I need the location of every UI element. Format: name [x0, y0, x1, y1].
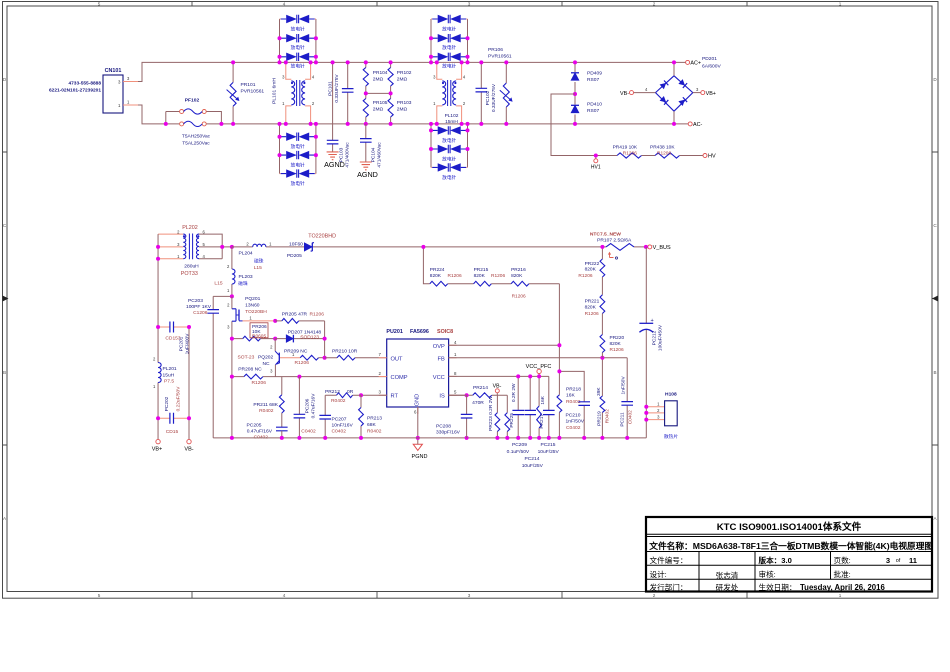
resistor PR215 labels — [474, 267, 506, 279]
wire FB row — [449, 357, 628, 359]
svg-text:3: 3 — [468, 2, 471, 7]
common-mode choke PL101 — [282, 62, 315, 124]
svg-text:PR212: PR212 — [325, 389, 340, 395]
svg-text:3: 3 — [468, 593, 471, 598]
svg-text:R1206: R1206 — [491, 273, 505, 279]
wire OVP column — [558, 284, 560, 395]
svg-text:820K: 820K — [585, 267, 597, 273]
discharge diode block lower PL101 — [280, 124, 316, 178]
svg-text:TO220BHD: TO220BHD — [308, 234, 336, 240]
transformer PL202 labels — [181, 225, 199, 277]
svg-text:C1206: C1206 — [193, 310, 208, 316]
svg-text:13N60: 13N60 — [245, 302, 260, 308]
discharge diode block lower PL102 — [431, 124, 468, 172]
svg-text:PC104: PC104 — [370, 147, 376, 162]
capacitor PC208 labels — [436, 423, 461, 435]
svg-text:PR215: PR215 — [474, 267, 489, 273]
svg-text:0.22uF/50V: 0.22uF/50V — [176, 386, 182, 412]
capacitor PC211 labels — [619, 376, 633, 427]
resistors PR104 PR105 — [363, 62, 368, 124]
inductor PL201 — [153, 356, 161, 389]
svg-text:PR209 NC: PR209 NC — [284, 348, 308, 354]
resistor PR214 — [449, 393, 508, 398]
wire L line top — [138, 62, 686, 81]
svg-text:PR438 10K: PR438 10K — [650, 144, 675, 150]
svg-text:R1206: R1206 — [610, 347, 624, 353]
svg-text:张志清: 张志清 — [716, 570, 739, 580]
ground AGND for PC104 — [357, 162, 378, 179]
resistor PR223 — [495, 395, 500, 438]
wire PFC row — [232, 246, 648, 248]
terminal VB- sense — [493, 383, 502, 395]
svg-text:PR219: PR219 — [597, 411, 603, 426]
svg-text:PC211: PC211 — [619, 412, 625, 427]
capacitor PC205 labels — [247, 423, 273, 441]
svg-text:OVP: OVP — [433, 344, 445, 350]
svg-text:820K: 820K — [610, 341, 622, 347]
svg-text:2MΩ: 2MΩ — [373, 77, 384, 83]
svg-text:PR214: PR214 — [473, 385, 488, 391]
terminal VB- — [184, 439, 193, 452]
svg-text:330pF/16V: 330pF/16V — [436, 430, 461, 436]
wire middle tie PR104-PR102 — [366, 92, 391, 94]
svg-text:2: 2 — [653, 2, 656, 7]
terminal VB- bridge — [620, 87, 656, 97]
connector H108 — [646, 401, 677, 426]
svg-text:PR107 2.5Ω/6A: PR107 2.5Ω/6A — [597, 238, 632, 244]
resistor PR206 — [232, 336, 275, 341]
svg-text:PC206: PC206 — [305, 398, 311, 413]
svg-text:PR104: PR104 — [373, 70, 388, 76]
resistor PR212 — [325, 393, 361, 398]
capacitor PC212 labels — [652, 324, 664, 351]
resistor PR205 — [275, 319, 324, 324]
svg-text:R1206: R1206 — [295, 360, 310, 366]
svg-text:2MΩ: 2MΩ — [397, 107, 408, 113]
capacitor PC210 — [559, 371, 590, 438]
svg-text:VCC: VCC — [433, 375, 445, 381]
svg-text:PR208 NC: PR208 NC — [238, 367, 262, 373]
svg-text:放电针: 放电针 — [442, 137, 456, 144]
svg-text:放电针: 放电针 — [442, 155, 456, 162]
zone letters left — [3, 77, 7, 521]
svg-text:PR105: PR105 — [373, 100, 388, 106]
svg-text:审核:: 审核: — [759, 569, 776, 579]
capacitor PC209 — [512, 376, 524, 438]
svg-text:10F60: 10F60 — [289, 242, 303, 248]
capacitor PC210 labels — [566, 413, 585, 431]
wire GND pin — [417, 407, 419, 438]
svg-text:L15: L15 — [254, 265, 262, 271]
op-amp U1 PFC controller PU201 FA5696 — [387, 339, 449, 407]
svg-text:0.47uF/16V: 0.47uF/16V — [311, 393, 317, 419]
wire PR205 corner — [324, 321, 326, 358]
capacitor PC207 labels — [332, 416, 354, 434]
svg-text:11: 11 — [909, 556, 918, 565]
svg-text:PD201: PD201 — [702, 56, 717, 62]
capacitor PC211 — [621, 358, 633, 438]
resistor PR222 labels — [578, 261, 599, 279]
svg-text:版本：3.0: 版本：3.0 — [758, 555, 792, 565]
svg-text:PC207: PC207 — [332, 416, 347, 422]
zone numbers top — [98, 2, 842, 7]
svg-text:PL203: PL203 — [239, 274, 253, 280]
svg-text:放电针: 放电针 — [291, 63, 305, 70]
resistor PR438 labels — [650, 144, 675, 156]
svg-text:C0402: C0402 — [301, 428, 316, 434]
svg-text:of: of — [896, 558, 901, 564]
discharge needle labels lower PL101 — [291, 143, 305, 187]
svg-text:PR216: PR216 — [511, 267, 526, 273]
inductor PL204 labels — [239, 250, 264, 270]
junction PR101 nodes — [231, 60, 235, 126]
svg-text:PC102: PC102 — [485, 90, 491, 105]
svg-text:0R: 0R — [347, 389, 354, 395]
svg-text:KTC ISO9001.ISO14001体系文件: KTC ISO9001.ISO14001体系文件 — [717, 521, 862, 533]
svg-text:0.33UF/275V: 0.33UF/275V — [334, 74, 340, 103]
svg-text:PR210 10R: PR210 10R — [332, 348, 358, 354]
capacitor PC214 labels — [522, 456, 544, 469]
svg-text:280uH: 280uH — [184, 263, 199, 269]
svg-text:磁珠: 磁珠 — [238, 280, 248, 287]
svg-text:3: 3 — [886, 556, 890, 565]
svg-text:PC203: PC203 — [188, 298, 203, 304]
fuse PF102 value labels — [182, 133, 211, 146]
varistor PR106 — [500, 62, 513, 124]
wire ground rail — [213, 437, 646, 439]
svg-text:PC214: PC214 — [525, 456, 540, 462]
resistor PR213 — [359, 395, 364, 438]
svg-text:TO220BH: TO220BH — [245, 309, 267, 315]
svg-text:VB-: VB- — [184, 447, 193, 453]
capacitor PC205 — [276, 427, 288, 438]
connector CN101 — [103, 68, 138, 113]
svg-text:磁珠: 磁珠 — [254, 257, 264, 264]
capacitor PC201 labels — [165, 333, 190, 355]
svg-text:16K: 16K — [566, 393, 575, 399]
svg-text:SOT-23: SOT-23 — [238, 355, 255, 361]
capacitor PC101 labels — [328, 74, 340, 103]
svg-text:0.1uF/50V: 0.1uF/50V — [507, 449, 530, 455]
svg-text:2MΩ: 2MΩ — [373, 107, 384, 113]
svg-text:2MΩ: 2MΩ — [397, 77, 408, 83]
svg-text:PQ202: PQ202 — [258, 355, 274, 361]
capacitor PC208 — [449, 395, 473, 438]
svg-text:R1206: R1206 — [578, 273, 592, 279]
svg-text:CD15: CD15 — [166, 429, 179, 435]
svg-text:PR222: PR222 — [585, 261, 600, 267]
svg-text:PC201: PC201 — [179, 336, 185, 351]
discharge needle labels upper PL101 — [291, 26, 305, 70]
svg-text:PF102: PF102 — [185, 98, 200, 104]
wire HV branch — [551, 94, 617, 156]
resistor PR438 — [655, 153, 680, 158]
inductor PL203 — [227, 247, 235, 297]
svg-text:R0402: R0402 — [259, 408, 274, 414]
resistor PR217 — [537, 376, 542, 438]
svg-text:页数:: 页数: — [834, 555, 851, 565]
PU201 pin lead stubs — [379, 345, 457, 414]
svg-text:PC205: PC205 — [247, 423, 262, 429]
svg-text:PVR10561: PVR10561 — [488, 54, 512, 60]
svg-text:放电针: 放电针 — [442, 63, 456, 70]
wire PL202 left rail — [157, 234, 159, 439]
resistor PR224 labels — [430, 267, 462, 279]
capacitor PC209 labels — [507, 442, 530, 455]
svg-text:820K: 820K — [585, 305, 597, 311]
svg-text:PR205 47R: PR205 47R — [282, 311, 308, 317]
svg-text:R0605: R0605 — [252, 334, 266, 340]
svg-text:R1206: R1206 — [310, 311, 325, 317]
svg-text:PL201: PL201 — [163, 366, 177, 372]
svg-text:100uF/450V: 100uF/450V — [658, 324, 664, 351]
svg-text:PR419 10K: PR419 10K — [613, 144, 638, 150]
capacitor PC104 — [360, 124, 372, 162]
svg-text:放电针: 放电针 — [291, 26, 305, 33]
svg-text:2: 2 — [653, 593, 656, 598]
resistor PR216 labels — [511, 267, 526, 300]
svg-text:4: 4 — [283, 593, 286, 598]
resistor PR211 labels — [253, 402, 278, 414]
transistor PQ201 labels — [245, 296, 267, 315]
connector H108 labels — [664, 392, 678, 440]
svg-text:1nF/50V: 1nF/50V — [621, 376, 627, 395]
svg-text:PD409: PD409 — [587, 71, 602, 77]
transistor PQ202 labels — [238, 355, 274, 367]
varistor PR106 labels — [488, 47, 512, 60]
thermistor PR107 labels — [590, 231, 632, 243]
svg-text:PVR10561: PVR10561 — [241, 89, 265, 95]
svg-text:C0402: C0402 — [332, 428, 347, 434]
resistor PR205 labels — [282, 311, 324, 317]
capacitor PC214 — [524, 376, 536, 438]
capacitor PC206 — [294, 377, 306, 438]
resistor PR225 labels — [509, 383, 517, 428]
svg-text:NC: NC — [263, 361, 271, 367]
svg-text:R1206: R1206 — [657, 151, 671, 157]
resistor PR216 — [511, 281, 559, 286]
svg-text:VB+: VB+ — [706, 91, 716, 97]
diode PD205 — [304, 243, 314, 251]
label PL102 15mH — [445, 113, 459, 125]
junction ground rail dots — [230, 436, 629, 440]
svg-text:NTC7.5_NEW: NTC7.5_NEW — [590, 231, 621, 237]
svg-text:发行部门：: 发行部门： — [650, 582, 688, 592]
junction fuse nodes — [164, 122, 224, 126]
wire N line bottom — [138, 105, 688, 124]
varistor PR101 — [227, 62, 240, 124]
svg-text:PD205: PD205 — [287, 253, 302, 259]
inductor PL203 labels — [214, 274, 253, 287]
svg-text:PR106: PR106 — [488, 47, 503, 53]
capacitor PC104 labels — [370, 142, 382, 168]
bridge PD201 labels — [702, 56, 722, 70]
diode PD410 — [571, 94, 579, 124]
resistor PR219 — [600, 358, 605, 438]
svg-text:PC208: PC208 — [436, 423, 451, 429]
svg-text:16K: 16K — [540, 395, 546, 404]
svg-text:PR213: PR213 — [367, 415, 382, 421]
svg-text:10uF/25V: 10uF/25V — [538, 449, 560, 455]
svg-text:放电针: 放电针 — [442, 174, 456, 181]
svg-text:PR103: PR103 — [397, 100, 412, 106]
svg-text:AGND: AGND — [357, 170, 378, 179]
svg-text:HV: HV — [708, 154, 716, 160]
ground AGND for PC103 — [324, 152, 345, 169]
resistor PR419 — [617, 153, 642, 158]
svg-text:PC202: PC202 — [164, 396, 170, 411]
ground PGND — [412, 438, 428, 460]
svg-text:39K: 39K — [596, 387, 602, 396]
resistor PR222 — [600, 247, 605, 277]
diode PD205 labels — [287, 242, 303, 259]
svg-text:10uF/25V: 10uF/25V — [522, 463, 544, 469]
svg-text:100PF 1KV: 100PF 1KV — [186, 304, 212, 310]
inductor PL204 — [246, 241, 272, 247]
svg-text:放电针: 放电针 — [291, 180, 305, 187]
svg-text:B: B — [933, 370, 936, 375]
wire PR419-PR438 — [642, 155, 656, 157]
svg-text:L15: L15 — [214, 280, 222, 286]
terminal VB+ bridge — [693, 87, 716, 97]
capacitor PC202 CD15 — [158, 413, 189, 424]
svg-text:批准:: 批准: — [834, 569, 851, 579]
resistor PR208 labels — [238, 367, 266, 387]
discharge diode block upper PL101 — [280, 15, 316, 63]
svg-text:FB: FB — [438, 356, 445, 362]
diode PD207 — [275, 335, 324, 343]
svg-text:R1206: R1206 — [252, 380, 267, 386]
svg-text:PR220: PR220 — [610, 335, 625, 341]
capacitor PC203 labels — [186, 298, 212, 316]
svg-text:放电针: 放电针 — [442, 26, 456, 33]
svg-text:PGND: PGND — [412, 454, 428, 460]
svg-text:GND: GND — [414, 394, 420, 406]
capacitor PC102 labels — [485, 83, 497, 112]
svg-text:820K: 820K — [474, 273, 486, 279]
capacitor PC201 CD153 — [158, 322, 189, 333]
title block row design — [650, 569, 851, 580]
svg-text:0.2R 2W: 0.2R 2W — [511, 383, 517, 402]
svg-text:生效日期：: 生效日期： — [759, 582, 797, 592]
svg-text:P7.5: P7.5 — [164, 379, 174, 385]
svg-text:T5AL250Vac: T5AL250Vac — [182, 140, 210, 146]
svg-text:POT33: POT33 — [181, 271, 198, 277]
wire VCC row — [449, 375, 549, 377]
svg-text:研发处: 研发处 — [716, 582, 739, 592]
svg-text:PQ201: PQ201 — [245, 296, 261, 302]
svg-text:5: 5 — [98, 593, 101, 598]
svg-text:PR102: PR102 — [397, 70, 412, 76]
centerfold arrow right — [932, 296, 938, 302]
svg-text:PR101: PR101 — [241, 82, 256, 88]
svg-text:1: 1 — [839, 593, 842, 598]
svg-text:放电针: 放电针 — [291, 162, 305, 169]
inductor PL201 labels — [163, 366, 177, 385]
svg-text:PC209: PC209 — [512, 442, 527, 448]
svg-text:4: 4 — [283, 2, 286, 7]
svg-text:CN101: CN101 — [105, 68, 122, 74]
title block frame — [646, 517, 932, 592]
svg-text:AC-: AC- — [693, 122, 702, 128]
wire divider tap — [423, 247, 429, 284]
thermistor PR107 NTC — [606, 244, 634, 260]
svg-text:PR221: PR221 — [585, 299, 600, 305]
svg-text:PR224: PR224 — [430, 267, 445, 273]
svg-text:VB-: VB- — [620, 91, 629, 97]
discharge diode block upper PL102 — [431, 15, 468, 63]
svg-text:PL102: PL102 — [445, 113, 459, 119]
svg-text:PC210: PC210 — [566, 413, 581, 419]
connector CN101 part number labels — [49, 80, 101, 93]
wire RT row — [361, 394, 387, 396]
svg-text:1: 1 — [839, 2, 842, 7]
svg-text:PC212: PC212 — [652, 330, 658, 345]
svg-text:4733-555-8888: 4733-555-8888 — [68, 80, 101, 86]
resistor PR220 labels — [610, 335, 625, 353]
svg-text:1nF/50V: 1nF/50V — [566, 419, 585, 425]
svg-text:471/460Vac: 471/460Vac — [376, 142, 382, 168]
svg-text:H108: H108 — [665, 392, 677, 398]
terminal AC- bottom — [688, 122, 702, 128]
PU201 pin numbers — [379, 340, 457, 415]
svg-text:PL204: PL204 — [239, 250, 253, 256]
svg-text:820K: 820K — [430, 273, 442, 279]
svg-text:RT: RT — [391, 394, 399, 400]
svg-text:10nF/16V: 10nF/16V — [332, 422, 354, 428]
resistor PR212 labels — [325, 389, 354, 404]
svg-text:PC103: PC103 — [339, 147, 345, 162]
diode PD410 labels — [587, 102, 602, 115]
diode PD409 labels — [587, 71, 602, 84]
svg-text:R0402: R0402 — [367, 428, 382, 434]
resistor PR206 labels with box — [250, 323, 268, 340]
resistor PR211 — [279, 377, 284, 428]
resistor PR209 labels — [284, 348, 309, 366]
zone numbers bottom — [98, 593, 842, 598]
resistor PR225 — [505, 395, 510, 438]
labels PR104 PR105 PR102 PR103 — [373, 70, 412, 113]
svg-text:放电针: 放电针 — [442, 44, 456, 51]
capacitor PC101 — [342, 62, 354, 124]
discharge needle labels lower PL102 — [442, 137, 456, 181]
wire to HV terminal — [680, 155, 703, 157]
svg-text:COMP: COMP — [391, 375, 408, 381]
svg-text:VB-: VB- — [493, 383, 502, 389]
svg-text:IS: IS — [439, 394, 445, 400]
svg-text:PU201: PU201 — [386, 329, 402, 335]
svg-text:T5AH250Vac: T5AH250Vac — [182, 133, 211, 139]
capacitor PC207 — [319, 395, 331, 438]
capacitor PC203 — [207, 296, 232, 438]
resistor PR218 — [557, 395, 562, 438]
svg-text:SOIC8: SOIC8 — [437, 329, 453, 335]
diode PD207 labels — [288, 329, 322, 340]
transformer PL202 — [158, 229, 232, 259]
svg-text:VCC_PFC: VCC_PFC — [526, 364, 552, 370]
svg-text:VB+: VB+ — [152, 447, 163, 453]
svg-text:6221-02N101-27239201: 6221-02N101-27239201 — [49, 87, 101, 93]
svg-text:文件编号：: 文件编号： — [650, 555, 688, 565]
svg-text:PL101 6mH: PL101 6mH — [272, 78, 278, 104]
svg-text:R1206: R1206 — [623, 151, 637, 157]
svg-text:R0402: R0402 — [605, 409, 611, 423]
svg-text:470R: 470R — [472, 400, 484, 406]
svg-text:AC+: AC+ — [690, 61, 701, 67]
svg-text:15uH: 15uH — [163, 372, 175, 378]
resistor PR221 — [600, 277, 605, 314]
transistor PQ202 — [270, 339, 300, 377]
